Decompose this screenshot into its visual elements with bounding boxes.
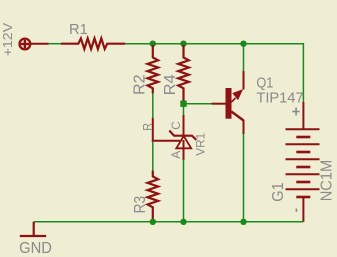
battery G1 xyxy=(286,102,320,222)
label + (battery) xyxy=(292,107,299,115)
wire VR1 anode to bottom rail xyxy=(183,160,185,222)
junction top rail / Q1 emitter xyxy=(240,41,246,47)
svg-text:GND: GND xyxy=(19,240,52,257)
cell plate long 4 xyxy=(286,173,320,175)
base bar xyxy=(226,88,232,119)
bottom pin xyxy=(302,197,304,222)
svg-text:C: C xyxy=(169,121,183,130)
svg-text:VR1: VR1 xyxy=(194,132,208,155)
transistor Q1 xyxy=(212,71,244,134)
ground symbol GND xyxy=(20,222,46,236)
cell plate short 5 xyxy=(296,196,310,199)
cell plate short 2 xyxy=(296,151,310,154)
pin R vertical xyxy=(152,118,154,142)
emitter line xyxy=(231,98,235,102)
emitter pin vertical xyxy=(243,71,245,90)
cell plate short 4 xyxy=(296,181,310,184)
svg-text:G1: G1 xyxy=(270,182,287,202)
junction bottom rail / VR1 anode xyxy=(180,219,186,225)
resistor R4 xyxy=(178,45,189,101)
cell plate long 1 xyxy=(286,128,320,130)
pin A vertical xyxy=(183,140,185,160)
shunt regulator VR1 xyxy=(152,115,197,160)
wire top rail xyxy=(125,44,303,102)
junction bottom rail / R3 xyxy=(150,219,156,225)
wire VR1 cathode stub xyxy=(183,104,185,116)
svg-text:R2: R2 xyxy=(131,74,148,95)
resistor R3 xyxy=(148,171,159,222)
collector pin vertical xyxy=(243,120,245,134)
collector line xyxy=(231,112,243,121)
cell plate long 5 xyxy=(286,188,320,190)
junction R4 / VR1 cathode / Q1 base xyxy=(180,101,186,107)
svg-text:A: A xyxy=(169,151,183,159)
resistor R1 xyxy=(61,38,125,49)
svg-text:R4: R4 xyxy=(162,74,179,95)
cell plate long 2 xyxy=(286,143,320,145)
junction bottom rail / Q1 collector xyxy=(240,219,246,225)
top pin xyxy=(302,102,304,129)
junction top rail / R4 xyxy=(180,41,186,47)
base pin xyxy=(212,103,226,105)
svg-text:NC1M: NC1M xyxy=(319,160,336,202)
svg-text:R1: R1 xyxy=(69,21,88,38)
svg-text:TIP147: TIP147 xyxy=(256,90,303,107)
cathode bar with zener hooks xyxy=(169,131,196,140)
cell plate short 3 xyxy=(296,166,310,169)
pin C vertical xyxy=(183,115,185,136)
emitter arrow xyxy=(232,89,243,100)
svg-text:R: R xyxy=(140,123,154,131)
supply symbol +12V xyxy=(20,39,49,50)
wire bottom rail xyxy=(34,221,304,223)
pin R horizontal xyxy=(152,140,180,142)
wire R2/R3 mid segment xyxy=(152,142,154,171)
cell plate long 3 xyxy=(286,158,320,160)
wire R2 to VR1 ref node xyxy=(152,93,154,119)
svg-text:+12V: +12V xyxy=(1,22,15,56)
svg-text:R3: R3 xyxy=(132,196,149,214)
resistor R2 xyxy=(148,45,159,94)
anode triangle xyxy=(176,136,191,148)
wire collector to bottom rail xyxy=(243,134,245,222)
label - (battery) xyxy=(296,209,298,213)
junction top rail / R2 xyxy=(150,41,156,47)
wire base net xyxy=(184,103,212,105)
wire emitter to top rail xyxy=(243,44,245,72)
cell plate short 1 xyxy=(296,136,310,139)
wire +12V to R1 xyxy=(49,43,62,45)
